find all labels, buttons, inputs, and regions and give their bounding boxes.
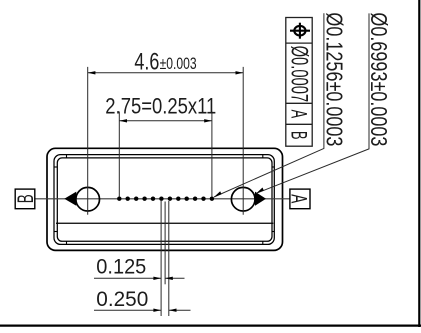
4.6 dimension line <box>88 72 244 74</box>
0.250 right stub <box>169 309 191 311</box>
ferrule body outer outline <box>47 148 283 250</box>
svg-text:A: A <box>287 110 312 119</box>
4.6 left arrowhead <box>88 71 96 74</box>
svg-text:Ø0.0007: Ø0.0007 <box>286 46 313 103</box>
leader for fiber holes <box>214 13 324 197</box>
datum A triangle (right) <box>255 192 266 206</box>
svg-text:0.250: 0.250 <box>96 287 148 311</box>
datum B box <box>15 189 35 209</box>
ferrule inner outline B (chamfer line) <box>57 158 272 241</box>
internal step line <box>56 222 273 224</box>
svg-text:A: A <box>286 194 311 203</box>
leader fiber arrowhead <box>214 191 222 197</box>
4.6 right arrowhead <box>236 71 244 74</box>
fiber hole dots row <box>117 197 214 201</box>
position symbol <box>290 23 310 39</box>
svg-text:B: B <box>287 131 312 140</box>
chamfer tick top-left <box>66 155 68 158</box>
fiber pitch extension line (dot 7) <box>168 201 170 316</box>
0.250 stub arrowhead <box>169 309 177 312</box>
chamfer tick bottom-right <box>262 241 264 244</box>
chamfer tick left-upper <box>54 166 57 168</box>
4.6 extension line right <box>242 67 244 215</box>
2.75 extension line left <box>118 112 120 197</box>
chamfer tick right-upper <box>272 166 274 168</box>
svg-text:4.6: 4.6 <box>134 49 159 76</box>
chamfer tick top-right <box>262 155 264 158</box>
2.75 extension line right <box>211 112 213 197</box>
svg-text:±0.003: ±0.003 <box>160 54 197 73</box>
chamfer tick right-lower <box>272 231 274 233</box>
svg-text:2.75=0.25x11: 2.75=0.25x11 <box>105 94 216 119</box>
0.250 dimension line <box>94 309 161 311</box>
0.125 arrowhead right <box>153 277 161 280</box>
0.125 dimension line <box>94 277 161 279</box>
2.75 dimension line <box>119 120 212 122</box>
drawing frame right border <box>418 0 420 327</box>
2.75 right arrowhead <box>204 119 212 122</box>
datum A box <box>290 189 310 209</box>
ferrule inner outline A <box>54 155 274 245</box>
left guide pin hole <box>76 187 100 211</box>
leader guide arrowhead <box>256 188 264 194</box>
datum B triangle (left) <box>64 192 76 206</box>
chamfer tick bottom-left <box>66 241 68 244</box>
horizontal centerline <box>35 198 290 200</box>
4.6 extension line left <box>87 67 89 215</box>
0.125 right stub <box>165 277 184 279</box>
centerline short extension <box>164 202 166 285</box>
fiber pitch extension line (dot 6) <box>160 201 162 316</box>
0.125 stub arrowhead <box>165 277 173 280</box>
2.75 left arrowhead <box>119 119 127 122</box>
drawing frame bottom border <box>0 325 421 327</box>
svg-text:0.125: 0.125 <box>96 255 146 279</box>
leader for guide pin holes <box>256 13 369 193</box>
0.250 arrowhead right <box>153 309 161 312</box>
svg-text:Ø0.1256±0.0003: Ø0.1256±0.0003 <box>321 12 347 146</box>
svg-text:B: B <box>13 194 38 203</box>
svg-text:Ø0.6993±0.0003: Ø0.6993±0.0003 <box>366 12 392 146</box>
chamfer tick left-lower <box>54 231 57 233</box>
feature control frame box <box>286 18 312 147</box>
right guide pin hole <box>231 187 255 211</box>
